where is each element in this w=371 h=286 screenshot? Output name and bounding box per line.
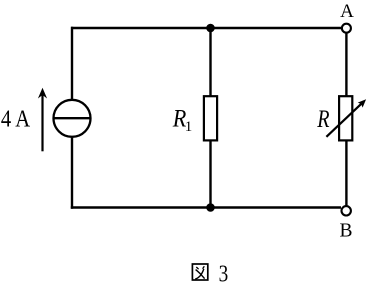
- svg-text:1: 1: [185, 119, 193, 135]
- wire left vertical lower: [71, 138, 73, 209]
- node junction bottom: [206, 203, 215, 212]
- wire left vertical upper: [71, 27, 73, 100]
- svg-text:B: B: [339, 220, 352, 241]
- caption glyph 図: [192, 264, 207, 280]
- terminal A: [342, 24, 351, 33]
- resistor R1: [204, 96, 217, 140]
- arrow current direction: [38, 88, 47, 152]
- svg-text:R: R: [316, 106, 329, 133]
- wire right vertical upper: [345, 33, 347, 96]
- svg-text:4 A: 4 A: [1, 107, 31, 133]
- wire bottom rail: [71, 206, 341, 208]
- resistor R variable: [326, 96, 366, 140]
- node junction top: [206, 24, 215, 33]
- svg-text:A: A: [340, 1, 354, 22]
- wire middle vertical lower: [209, 141, 211, 208]
- wire middle vertical upper: [209, 28, 211, 96]
- wire right vertical lower: [345, 141, 347, 206]
- svg-text:3: 3: [219, 260, 229, 286]
- terminal B: [342, 206, 351, 215]
- wire top rail: [71, 27, 342, 29]
- current source I1: [53, 100, 90, 137]
